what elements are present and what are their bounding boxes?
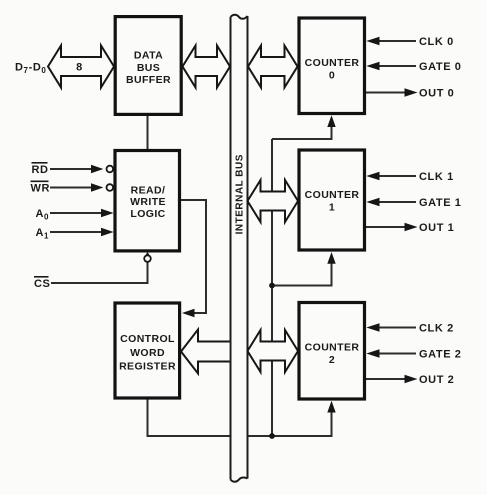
svg-text:INTERNAL BUS: INTERNAL BUS bbox=[234, 154, 245, 234]
svg-text:COUNTER: COUNTER bbox=[305, 57, 360, 69]
svg-text:CLK 2: CLK 2 bbox=[419, 323, 454, 335]
svg-text:GATE 2: GATE 2 bbox=[419, 349, 462, 361]
svg-text:WR: WR bbox=[31, 183, 51, 195]
svg-text:COUNTER: COUNTER bbox=[305, 189, 360, 201]
svg-text:OUT 2: OUT 2 bbox=[419, 374, 454, 386]
svg-text:GATE 0: GATE 0 bbox=[419, 61, 462, 73]
svg-text:OUT 1: OUT 1 bbox=[419, 222, 454, 234]
svg-text:CONTROL: CONTROL bbox=[120, 333, 175, 345]
svg-text:CLK 1: CLK 1 bbox=[419, 171, 454, 183]
svg-text:GATE 1: GATE 1 bbox=[419, 197, 462, 209]
svg-text:BUS: BUS bbox=[137, 62, 160, 74]
svg-text:WORD: WORD bbox=[130, 347, 165, 359]
svg-text:RD: RD bbox=[32, 164, 49, 176]
svg-text:OUT 0: OUT 0 bbox=[419, 88, 454, 100]
svg-text:REGISTER: REGISTER bbox=[119, 360, 176, 372]
svg-text:8: 8 bbox=[76, 62, 83, 74]
svg-text:COUNTER: COUNTER bbox=[305, 342, 360, 354]
svg-text:READ/: READ/ bbox=[131, 185, 166, 197]
svg-text:LOGIC: LOGIC bbox=[130, 208, 165, 220]
svg-text:CLK 0: CLK 0 bbox=[419, 36, 454, 48]
svg-text:2: 2 bbox=[329, 354, 335, 366]
svg-text:WRITE: WRITE bbox=[130, 196, 166, 208]
svg-text:DATA: DATA bbox=[134, 50, 163, 62]
svg-text:CS: CS bbox=[34, 278, 50, 290]
svg-text:0: 0 bbox=[329, 69, 335, 81]
svg-text:1: 1 bbox=[329, 201, 335, 213]
svg-text:BUFFER: BUFFER bbox=[126, 74, 171, 86]
